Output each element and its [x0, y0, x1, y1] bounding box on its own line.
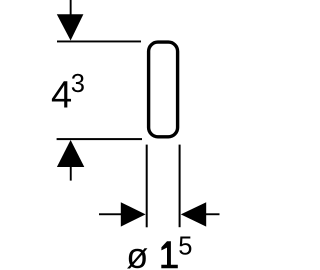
top arrowhead (pointing down)	[57, 14, 84, 40]
svg-text:3: 3	[71, 70, 85, 98]
svg-text:4: 4	[51, 75, 72, 117]
svg-text:5: 5	[178, 232, 192, 260]
slot outline (rounded rectangle)	[149, 42, 178, 137]
svg-text:ø: ø	[126, 235, 148, 270]
bottom arrowhead (pointing up)	[57, 140, 84, 167]
right arrow stub	[206, 213, 220, 215]
left arrowhead (pointing right)	[121, 202, 146, 226]
bottom arrow stub	[70, 167, 72, 181]
top arrow stub	[70, 0, 72, 15]
right vertical extension line	[179, 145, 181, 228]
left vertical extension line	[146, 145, 148, 228]
bottom extension line	[57, 138, 142, 140]
top extension line	[57, 41, 141, 43]
right arrowhead (pointing left)	[181, 202, 206, 226]
custom footed "1"	[161, 241, 178, 268]
left arrow stub	[99, 213, 121, 215]
